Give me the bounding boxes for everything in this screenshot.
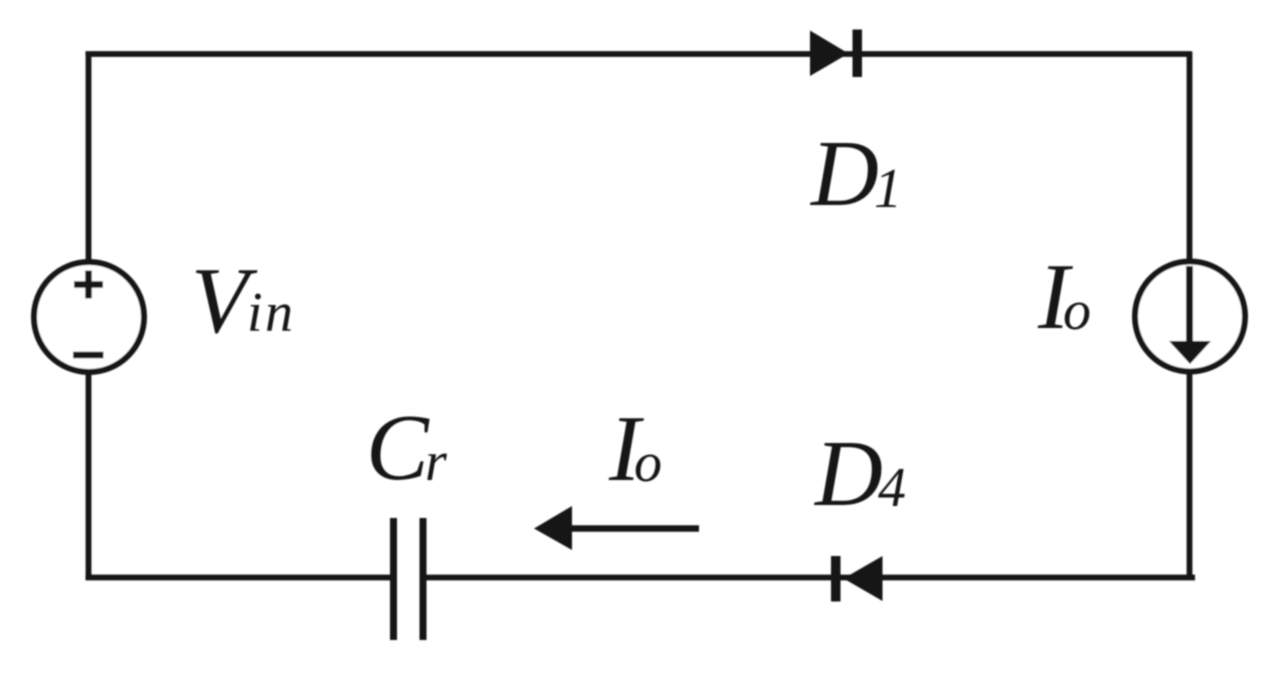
svg-text:o: o — [1063, 280, 1091, 342]
svg-text:D: D — [813, 422, 883, 526]
svg-text:C: C — [366, 396, 430, 500]
svg-text:D: D — [809, 122, 879, 226]
svg-text:o: o — [634, 432, 662, 494]
svg-text:4: 4 — [878, 457, 906, 519]
svg-text:in: in — [247, 282, 296, 344]
svg-text:1: 1 — [874, 158, 902, 220]
svg-text:r: r — [425, 431, 447, 493]
